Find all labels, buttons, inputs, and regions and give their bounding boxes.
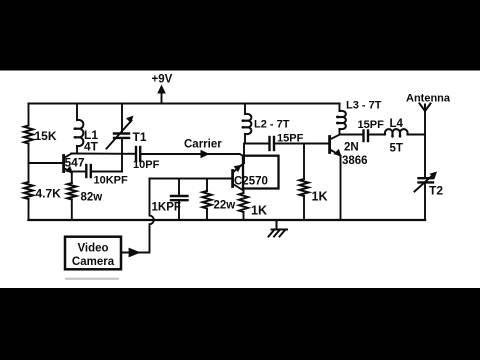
Q2 C2570 emitter arrowhead (points to collector node) bbox=[234, 165, 242, 173]
resistor 15K bbox=[24, 126, 33, 144]
wire: +9V feed stem bbox=[161, 93, 163, 104]
resistor 22w bbox=[203, 191, 212, 209]
svg-text:L4: L4 bbox=[390, 118, 404, 130]
wire: 1KPF drop bbox=[178, 179, 180, 196]
svg-text:Antenna: Antenna bbox=[406, 93, 451, 105]
wire: carrier line bbox=[141, 153, 239, 155]
wire: left rail mid segment bbox=[28, 144, 30, 183]
wire: left rail lower segment bbox=[28, 199, 30, 220]
svg-text:Carrier: Carrier bbox=[184, 139, 222, 151]
wire: 1K to ground rail bbox=[243, 212, 245, 220]
wire: T1 lower lead down to feedback line bbox=[121, 139, 123, 172]
wire: 1K to ground rail bbox=[303, 196, 305, 220]
svg-text:Video: Video bbox=[77, 243, 108, 255]
wire: collector line of 547 bbox=[72, 153, 136, 155]
wire: T1 drop from rail bbox=[121, 104, 123, 133]
wire: 15PF to L4 bbox=[369, 134, 385, 136]
wire: left rail upper segment bbox=[28, 104, 30, 126]
svg-text:5T: 5T bbox=[390, 143, 403, 155]
transistor Q3 collector diagonal bbox=[331, 135, 340, 140]
capacitor 15PF (driver) plates bbox=[268, 137, 270, 150]
T1 trimmer arrowhead bbox=[126, 116, 134, 124]
wire: collector node to 15PF output bbox=[340, 134, 363, 136]
T2 trimmer arrowhead bbox=[430, 172, 438, 179]
svg-text:4.7K: 4.7K bbox=[36, 187, 62, 201]
wire: node to 15PF bbox=[245, 143, 268, 145]
transistor Q2 C2570 bar bbox=[231, 171, 234, 187]
wire: 15PF to 2N3866 base bbox=[275, 143, 328, 145]
svg-text:1KPF: 1KPF bbox=[152, 202, 181, 214]
inductor L1 bbox=[74, 120, 83, 146]
wire: 22w to ground rail bbox=[206, 209, 208, 221]
transistor Q3 2N3866 bar bbox=[328, 137, 331, 153]
svg-text:22w: 22w bbox=[214, 200, 236, 212]
wire: 1K bias drop (right) bbox=[303, 144, 305, 180]
wire: L1 drop from rail bbox=[76, 104, 78, 121]
wire: L2 to node bbox=[244, 134, 246, 144]
trimmer arrow T2 bbox=[415, 174, 435, 192]
Q1 547 emitter arrowhead bbox=[65, 166, 73, 173]
wire: +9V top rail bbox=[29, 102, 340, 104]
inductor L3 bbox=[337, 111, 346, 129]
shadow line under video camera box bbox=[65, 278, 119, 280]
wire: 547 base bbox=[29, 162, 63, 164]
top letterbox bar bbox=[0, 0, 480, 71]
inductor L4 bbox=[385, 129, 408, 137]
svg-text:L3 - 7T: L3 - 7T bbox=[346, 100, 382, 112]
svg-text:15K: 15K bbox=[35, 129, 57, 143]
wire: feedback line left of 10KPF bbox=[72, 171, 85, 173]
+9V arrowhead bbox=[157, 85, 166, 94]
wire: antenna line down to T2 bbox=[424, 111, 426, 177]
resistor 4.7K bbox=[24, 182, 33, 199]
wire: 82w to ground rail bbox=[71, 200, 73, 221]
transistor Q2 base wire bbox=[150, 178, 232, 180]
svg-text:82w: 82w bbox=[81, 192, 103, 204]
resistor 82w bbox=[67, 183, 76, 200]
video camera output arrowhead bbox=[129, 248, 141, 258]
capacitor 10PF plates bbox=[135, 147, 137, 161]
ground symbol bbox=[269, 220, 288, 237]
trimmer arrow T1 bbox=[107, 121, 132, 149]
wire: feedback line right of 10KPF bbox=[92, 171, 122, 173]
transistor Q2 collector diagonal bbox=[234, 163, 244, 172]
transistor Q1 emitter diagonal bbox=[65, 169, 72, 173]
transistor Q1 547 bar bbox=[62, 156, 65, 172]
svg-text:2N: 2N bbox=[344, 142, 359, 154]
video camera box bbox=[65, 237, 121, 270]
antenna symbol bbox=[420, 104, 431, 112]
Q3 2N3866 emitter arrowhead bbox=[333, 149, 341, 156]
capacitor T1 plates bbox=[114, 132, 129, 134]
svg-text:T1: T1 bbox=[133, 130, 147, 144]
wire: emitter drop to 82w bbox=[71, 173, 73, 183]
bottom letterbox bar bbox=[0, 288, 480, 360]
svg-text:15PF: 15PF bbox=[277, 133, 304, 145]
svg-text:1K: 1K bbox=[312, 190, 328, 204]
capacitor T2 plates bbox=[419, 177, 434, 179]
carrier flow arrowhead bbox=[201, 150, 210, 158]
svg-text:4T: 4T bbox=[84, 140, 99, 154]
svg-text:3866: 3866 bbox=[342, 155, 368, 167]
box around C2570 label bbox=[243, 156, 279, 189]
svg-text:15PF: 15PF bbox=[358, 119, 385, 131]
wire: L2 drop from rail bbox=[244, 104, 246, 115]
svg-text:L2 - 7T: L2 - 7T bbox=[254, 119, 290, 131]
resistor 1K (2N3866 base bias) bbox=[300, 179, 309, 196]
capacitor 15PF (output) plates bbox=[362, 131, 364, 142]
transistor Q1 collector diagonal bbox=[65, 154, 72, 158]
wire: emitter to 1K bbox=[243, 191, 245, 194]
inductor L2 bbox=[242, 114, 251, 134]
wire: ground bottom rail bbox=[29, 219, 426, 221]
svg-text:1K: 1K bbox=[251, 204, 267, 218]
svg-text:547: 547 bbox=[65, 156, 85, 170]
wire: C2570 collector vertical bbox=[243, 144, 245, 164]
transistor Q2 emitter diagonal bbox=[234, 185, 244, 191]
svg-text:C2570: C2570 bbox=[234, 176, 268, 188]
capacitor 10KPF plates bbox=[85, 165, 87, 177]
svg-text:10KPF: 10KPF bbox=[94, 175, 129, 187]
wire: 1KPF to ground rail bbox=[178, 201, 180, 220]
wire: T2 down to ground rail corner bbox=[424, 184, 426, 221]
svg-text:+9V: +9V bbox=[152, 74, 173, 86]
wire: video input riser with hop over rail bbox=[122, 179, 154, 253]
wire: rail corner down to L3 bbox=[339, 104, 341, 112]
wire: L1 to collector line bbox=[76, 146, 78, 154]
wire: 22w drop bbox=[206, 179, 208, 192]
wire: emitter down to ground rail bbox=[340, 156, 342, 220]
resistor 1K (emitter of C2570) bbox=[239, 193, 248, 212]
svg-text:10PF: 10PF bbox=[133, 159, 160, 171]
capacitor 1KPF plates bbox=[171, 195, 188, 197]
svg-text:Camera: Camera bbox=[72, 256, 115, 268]
wire: L3 to collector node bbox=[339, 129, 341, 135]
svg-text:T2: T2 bbox=[429, 184, 443, 198]
transistor Q3 emitter diagonal bbox=[331, 150, 341, 156]
wire: L4 to antenna line bbox=[408, 134, 426, 136]
wire: carrier end curve into C2570 collector bbox=[240, 154, 245, 160]
